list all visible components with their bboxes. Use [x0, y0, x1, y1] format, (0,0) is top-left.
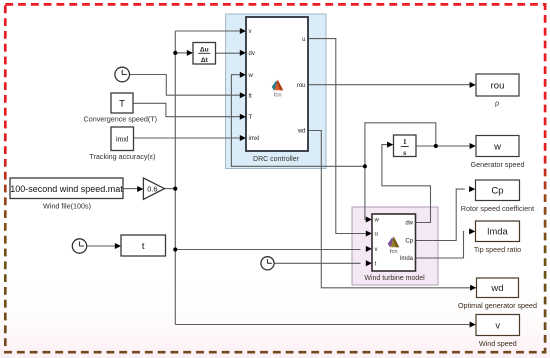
svg-text:100-second wind speed.mat: 100-second wind speed.mat: [10, 184, 123, 194]
svg-text:u: u: [302, 37, 305, 43]
svg-text:s: s: [403, 148, 406, 157]
svg-text:lmda: lmda: [487, 227, 508, 238]
svg-text:rou: rou: [491, 80, 505, 91]
svg-text:Generator speed: Generator speed: [471, 160, 525, 169]
svg-text:Cp: Cp: [405, 239, 413, 245]
svg-text:0.6: 0.6: [147, 184, 157, 193]
svg-text:ρ: ρ: [495, 98, 499, 107]
svg-text:T: T: [249, 115, 253, 121]
svg-text:Wind speed: Wind speed: [479, 339, 517, 348]
svg-text:dv: dv: [249, 51, 255, 57]
svg-text:imxl: imxl: [116, 137, 129, 144]
svg-text:v: v: [375, 247, 378, 253]
svg-text:fcn: fcn: [390, 249, 398, 255]
svg-text:Rotor speed coefficient: Rotor speed coefficient: [461, 204, 534, 213]
svg-text:dw: dw: [405, 221, 413, 227]
svg-text:fcn: fcn: [274, 93, 282, 99]
svg-text:w: w: [374, 218, 380, 224]
svg-text:v: v: [249, 29, 252, 35]
svg-text:t: t: [142, 241, 145, 252]
svg-text:Cp: Cp: [491, 185, 503, 196]
svg-text:1: 1: [403, 137, 407, 146]
svg-text:T: T: [119, 98, 125, 109]
svg-text:Optimal generator speed: Optimal generator speed: [458, 301, 537, 310]
svg-text:w: w: [248, 73, 254, 79]
svg-text:imxl: imxl: [249, 136, 260, 142]
svg-text:wd: wd: [297, 129, 306, 135]
svg-text:Tracking accuracy(ε): Tracking accuracy(ε): [89, 152, 155, 161]
svg-text:rou: rou: [297, 83, 306, 89]
svg-text:Tip speed ratio: Tip speed ratio: [474, 245, 521, 254]
svg-text:lmda: lmda: [400, 256, 414, 262]
svg-text:tt: tt: [249, 93, 253, 99]
svg-text:u: u: [375, 232, 378, 238]
svg-text:w: w: [493, 141, 501, 152]
svg-text:Convergence speed(T): Convergence speed(T): [84, 115, 158, 124]
svg-text:DRC controller: DRC controller: [253, 156, 300, 163]
svg-text:Wind file(100s): Wind file(100s): [43, 202, 91, 211]
svg-text:Δu: Δu: [200, 47, 209, 54]
svg-text:wd: wd: [490, 283, 503, 294]
svg-text:Δt: Δt: [201, 57, 209, 64]
svg-text:v: v: [495, 320, 500, 331]
svg-text:Wind turbine model: Wind turbine model: [364, 275, 425, 282]
